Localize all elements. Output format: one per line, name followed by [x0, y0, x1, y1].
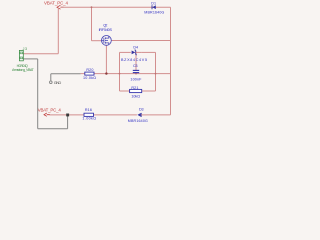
wire Q2 gate stub — [92, 40, 102, 42]
wire clamp ring left vertical — [119, 52, 121, 91]
wire from top label down to J3 pin1 — [57, 8, 59, 54]
resistor R21 — [130, 89, 142, 92]
wire top rail branch down to Q2 gate — [91, 7, 93, 41]
svg-text:R21: R21 — [131, 86, 138, 90]
junction gate branch / top rail — [91, 6, 93, 8]
junction C3 / D4 branch — [135, 52, 137, 54]
wire C3 bottom lead — [135, 72, 137, 75]
wire GND: vertical down left side — [37, 59, 39, 129]
wire right vertical rail — [170, 7, 172, 115]
junction clamp right / middle rail — [155, 73, 157, 75]
wire J3 pin1 horizontal — [23, 53, 58, 55]
wire Q2 drain to right rail — [111, 40, 170, 42]
capacitor C3 — [133, 70, 139, 72]
off-page connector marker (top) — [57, 5, 64, 9]
transistor Q2 (MOSFET IRF540S) — [102, 36, 112, 46]
wire GND: loop bottom — [38, 128, 68, 130]
diode D3 — [137, 113, 146, 117]
connector J3 — [19, 50, 23, 60]
svg-text:C3: C3 — [133, 64, 138, 68]
wire R21 leads — [120, 90, 130, 92]
ground symbol — [50, 81, 53, 84]
net label VBAT_PC_4 (top) — [44, 0, 69, 5]
svg-text:R16: R16 — [85, 108, 92, 112]
zener diode D4 — [132, 50, 142, 55]
junction clamp left / middle rail — [119, 73, 121, 75]
wire D4 leads — [120, 51, 131, 53]
off-page connector marker (bottom) — [44, 113, 50, 116]
junction dot (bottom left, net label tie) — [66, 114, 69, 117]
svg-text:VBAT_PC_4: VBAT_PC_4 — [38, 107, 62, 112]
svg-text:GND: GND — [54, 80, 62, 85]
resistor R16 — [84, 113, 94, 116]
wire GND: J3 pin2 horizontal — [23, 58, 37, 60]
svg-text:MBR1640G: MBR1640G — [128, 119, 148, 123]
svg-text:Armstrong_VBAT: Armstrong_VBAT — [12, 68, 35, 72]
svg-text:BZX84C4V5: BZX84C4V5 — [121, 58, 147, 62]
svg-text:J3: J3 — [23, 47, 27, 51]
svg-text:1.00kΩ: 1.00kΩ — [82, 116, 96, 120]
junction C3 / middle rail — [135, 73, 137, 75]
svg-text:D1: D1 — [151, 2, 156, 6]
svg-text:D3: D3 — [139, 107, 144, 111]
wire top rail — [61, 6, 171, 8]
svg-text:MBR1640G: MBR1640G — [144, 10, 164, 14]
wire bottom rail — [50, 114, 137, 116]
wire clamp ring right vertical — [155, 52, 157, 91]
wire Q2 source down to middle rail — [105, 45, 107, 73]
svg-text:Q2: Q2 — [103, 23, 107, 27]
svg-text:VBAT_PC_4: VBAT_PC_4 — [44, 0, 69, 5]
wire middle rail — [81, 73, 171, 75]
junction Q2 source / middle rail — [105, 72, 107, 74]
svg-text:10kΩ: 10kΩ — [131, 94, 140, 98]
svg-text:IRF540S: IRF540S — [99, 28, 113, 32]
svg-text:100nF: 100nF — [130, 78, 142, 82]
diode D1 — [152, 5, 156, 9]
wire C3 top lead — [135, 52, 137, 70]
wire GND: loop right up to junction — [67, 115, 69, 129]
svg-text:10.0kΩ: 10.0kΩ — [83, 76, 96, 80]
svg-text:R20: R20 — [86, 68, 93, 72]
svg-text:D4: D4 — [133, 46, 138, 50]
resistor R20 — [85, 72, 94, 75]
wire GND branch to R20 — [51, 73, 81, 75]
